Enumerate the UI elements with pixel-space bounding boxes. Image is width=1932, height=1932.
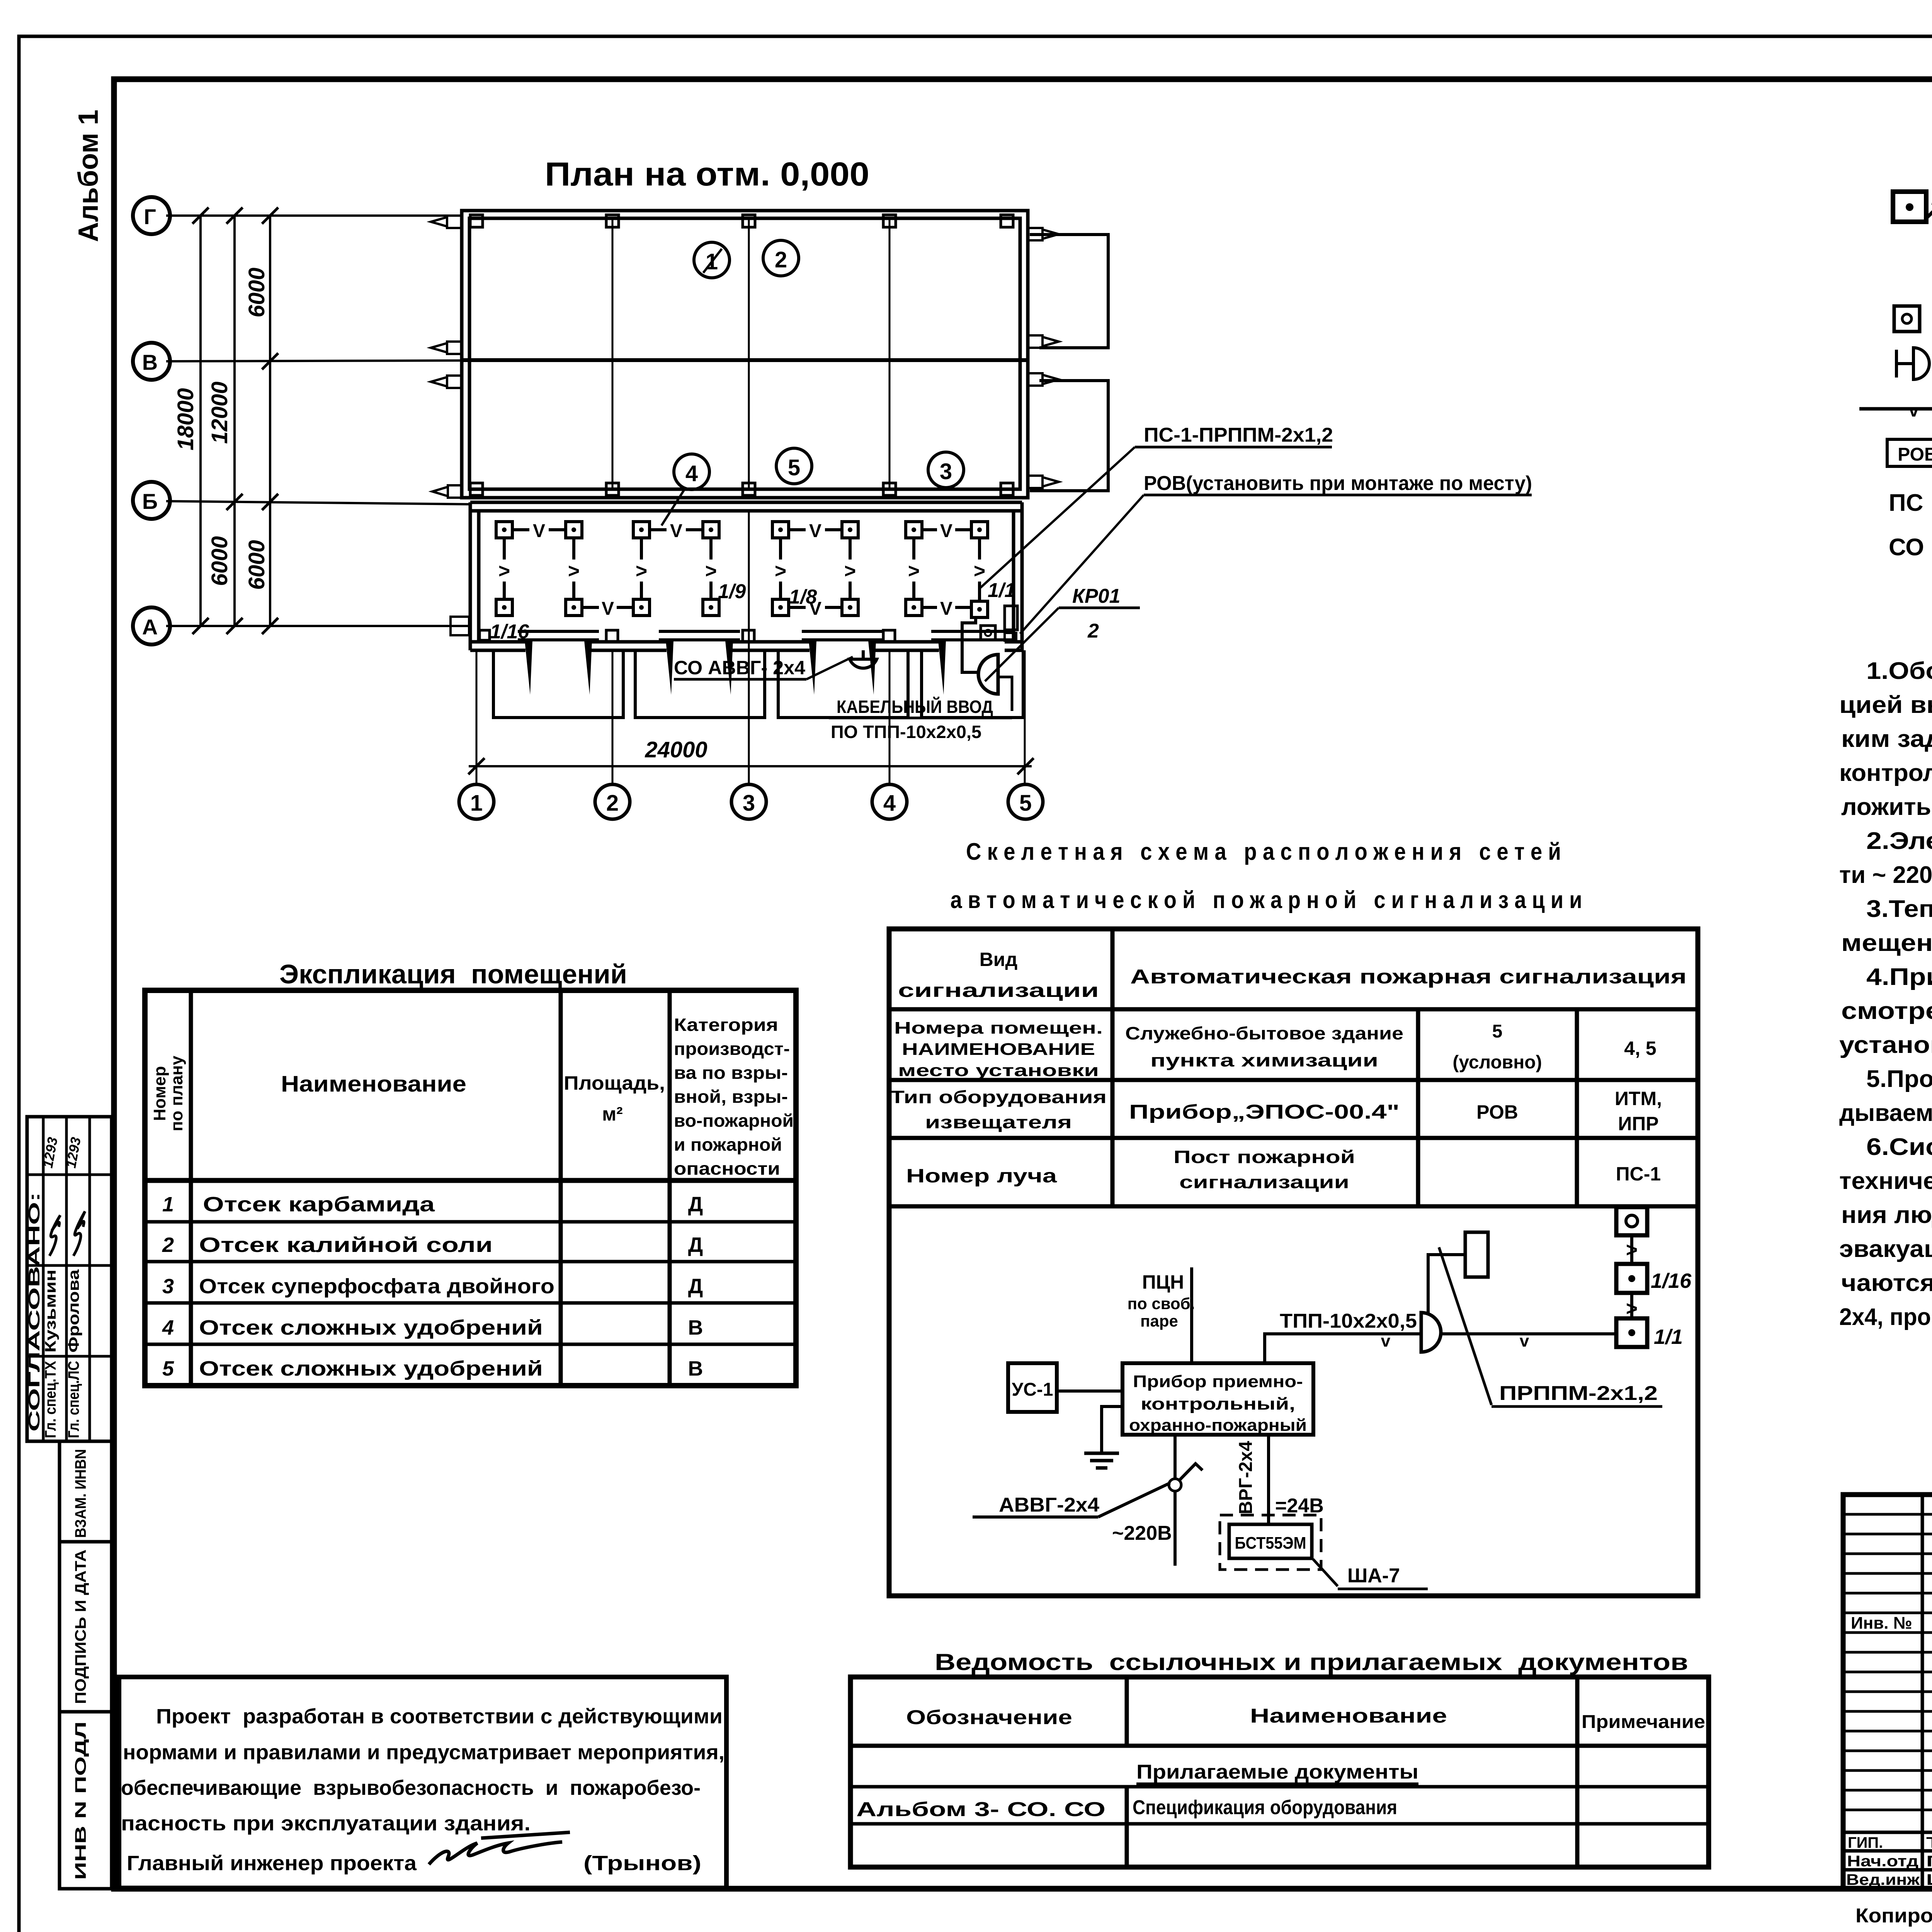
vedomost table xyxy=(850,1677,1709,1867)
svg-text:УС-1: УС-1 xyxy=(1012,1379,1053,1400)
right annex room 2 xyxy=(1030,381,1108,491)
wire bell to detector xyxy=(1441,1332,1616,1335)
skeletal table frame xyxy=(889,929,1698,1596)
row В wall through building xyxy=(462,358,1028,362)
svg-text:>: > xyxy=(1626,1239,1638,1261)
svg-text:>: > xyxy=(568,560,580,582)
annex bottom wall segments xyxy=(470,642,1022,650)
svg-text:2: 2 xyxy=(775,247,787,272)
door lintels over bay openings xyxy=(518,631,1012,640)
svg-text:>: > xyxy=(498,560,510,582)
svg-text:В: В xyxy=(142,350,158,374)
grid line 2 xyxy=(612,218,614,489)
column circle 2 xyxy=(595,784,630,819)
wire УС-1 to device xyxy=(1057,1389,1122,1393)
column circle 3 xyxy=(731,784,766,819)
detector 1/16 in schematic xyxy=(1616,1264,1647,1293)
svg-text:ПС-1: ПС-1 xyxy=(1616,1163,1661,1185)
svg-text:пункта химизации: пункта химизации xyxy=(1150,1050,1378,1070)
svg-text:ПС-1-ПРППМ-2х1,2: ПС-1-ПРППМ-2х1,2 xyxy=(1144,424,1333,446)
svg-text:ВЗАМ. ИНВN: ВЗАМ. ИНВN xyxy=(72,1449,89,1538)
left columns xyxy=(1921,1495,1924,1889)
svg-text:и пожарной: и пожарной xyxy=(674,1134,782,1155)
svg-text:6.Система оповещения о пожаре-: 6.Система оповещения о пожаре- составная… xyxy=(1866,1134,1932,1160)
explication table frame xyxy=(145,990,796,1386)
svg-text:2.Электропитание прибора произ: 2.Электропитание прибора произвести по I… xyxy=(1866,828,1932,854)
svg-text:>: > xyxy=(1626,1298,1638,1320)
svg-text:Д: Д xyxy=(688,1275,703,1298)
svg-text:6000: 6000 xyxy=(207,536,232,586)
svg-text:ПЦН: ПЦН xyxy=(1142,1271,1184,1293)
svg-text:опасности: опасности xyxy=(674,1158,780,1179)
svg-text:18000: 18000 xyxy=(173,388,198,450)
svg-text:РОВ(установить при монтаже по: РОВ(установить при монтаже по месту) xyxy=(1144,472,1532,495)
symbol auto detector xyxy=(1893,192,1926,222)
column circle 1 xyxy=(459,784,494,819)
svg-text:контрольный охранно-пожарный „: контрольный охранно-пожарный „ЭПОС-004."… xyxy=(1839,760,1932,786)
svg-text:5: 5 xyxy=(1019,791,1032,816)
grid row circle Б xyxy=(133,482,170,519)
svg-text:5: 5 xyxy=(1492,1021,1503,1042)
leader ПРППМ xyxy=(1439,1247,1492,1405)
svg-text:Пост пожарной: Пост пожарной xyxy=(1173,1147,1355,1167)
svg-text:Обозначение: Обозначение xyxy=(906,1706,1072,1729)
category letters xyxy=(688,1193,703,1380)
row numbers xyxy=(162,1193,174,1380)
svg-text:4: 4 xyxy=(162,1316,174,1339)
svg-text:v: v xyxy=(1520,1332,1529,1350)
svg-text:а в т о м а т и ч е с к о й: а в т о м а т и ч е с к о й п о ж а р н … xyxy=(951,887,1582,913)
row line Г xyxy=(166,214,462,217)
upper building block outer wall xyxy=(462,211,1028,498)
annex top wall xyxy=(470,501,1022,504)
chain wires with chevrons xyxy=(1630,1235,1633,1264)
svg-text:Номер луча: Номер луча xyxy=(906,1165,1058,1187)
svg-text:1/1: 1/1 xyxy=(988,579,1015,602)
svg-text:сигнализации: сигнализации xyxy=(1179,1172,1349,1192)
bell at right wall xyxy=(978,655,998,694)
manual detector in schematic xyxy=(1616,1207,1647,1235)
svg-text:4.При срабатывании любого изве: 4.При срабатывании любого извещателя при… xyxy=(1866,964,1932,990)
svg-text:КР01: КР01 xyxy=(1072,585,1121,607)
svg-text:5: 5 xyxy=(788,455,800,480)
svg-text:Д: Д xyxy=(688,1233,703,1257)
svg-text:паре: паре xyxy=(1140,1312,1178,1330)
left table rows xyxy=(1843,1514,1932,1810)
title block outer xyxy=(1843,1495,1932,1889)
room circle 1 xyxy=(694,242,730,278)
chief engineer signature xyxy=(429,1842,562,1864)
svg-text:пасность при эксплуатации здан: пасность при эксплуатации здания. xyxy=(121,1812,531,1835)
svg-text:Ведомость ссылочных и прилага: Ведомость ссылочных и прилагаемых докуме… xyxy=(935,1649,1688,1675)
symbol signal line xyxy=(1859,407,1932,411)
battery block БСТ55ЭМ xyxy=(1229,1524,1312,1558)
header col4 xyxy=(674,1015,794,1179)
svg-text:ва по взры-: ва по взры- xyxy=(674,1063,788,1083)
svg-text:ти ~ 220В и от батареи = 24 В.: ти ~ 220В и от батареи = 24 В. Прибор за… xyxy=(1839,862,1932,888)
svg-text:Автоматическая пожарная сигнал: Автоматическая пожарная сигнализация xyxy=(1130,966,1687,988)
svg-text:НАИМЕНОВАНИЕ: НАИМЕНОВАНИЕ xyxy=(902,1040,1095,1059)
svg-text:ким заданием. Сигналы о пожаре: ким заданием. Сигналы о пожаре подаются … xyxy=(1841,726,1932,752)
column circle 4 xyxy=(872,784,907,819)
cable entry wire xyxy=(999,677,1012,711)
bell in schematic xyxy=(1421,1313,1441,1352)
svg-text:V: V xyxy=(533,521,545,541)
row line Б xyxy=(166,501,470,504)
svg-text:Вид: Вид xyxy=(980,949,1018,970)
svg-text:Цыганова: Цыганова xyxy=(1926,1871,1932,1888)
room circle 3 xyxy=(928,452,964,488)
svg-text:ложить в служебно-бытовом здан: ложить в служебно-бытовом здании пункта … xyxy=(1841,794,1932,820)
svg-text:ГИП.: ГИП. xyxy=(1848,1834,1883,1851)
row line А xyxy=(166,625,468,627)
svg-text:2: 2 xyxy=(162,1233,174,1257)
wire to PTsN xyxy=(1190,1267,1193,1363)
svg-text:во-пожарной: во-пожарной xyxy=(674,1111,794,1131)
svg-text:Номера помещен.: Номера помещен. xyxy=(894,1019,1103,1037)
svg-text:Отсек карбамида: Отсек карбамида xyxy=(203,1193,435,1216)
svg-text:извещателя: извещателя xyxy=(925,1112,1072,1132)
grid line 1 xyxy=(476,650,478,784)
ВРГ wire xyxy=(1267,1435,1270,1524)
svg-text:2: 2 xyxy=(606,791,619,816)
svg-text:~220В: ~220В xyxy=(1112,1522,1172,1544)
svg-text:дываемым по стене и потолку от: дываемым по стене и потолку открыто. xyxy=(1839,1100,1932,1126)
detector 1/1 in schematic xyxy=(1616,1318,1647,1347)
svg-text:Отсек суперфосфата двойного: Отсек суперфосфата двойного xyxy=(199,1275,554,1298)
svg-text:КАБЕЛЬНЫЙ ВВОД: КАБЕЛЬНЫЙ ВВОД xyxy=(837,697,993,717)
svg-text:Наименование: Наименование xyxy=(1250,1705,1447,1727)
svg-text:Гл. спец.ТХ: Гл. спец.ТХ xyxy=(42,1361,59,1438)
svg-text:1/16: 1/16 xyxy=(490,621,529,643)
svg-text:В: В xyxy=(688,1316,703,1339)
svg-text:ПРППМ-2х1,2: ПРППМ-2х1,2 xyxy=(1499,1382,1658,1405)
svg-text:>: > xyxy=(775,560,786,582)
svg-text:v: v xyxy=(1909,400,1919,420)
right pilaster row Г xyxy=(1028,228,1059,240)
svg-text:место установки: место установки xyxy=(898,1061,1099,1080)
grid row circle А xyxy=(133,607,170,645)
loop wires top row with V marks xyxy=(512,528,971,531)
row names xyxy=(199,1193,554,1380)
svg-text:1: 1 xyxy=(162,1193,174,1216)
svg-text:технических средств противопож: технических средств противопожарной защи… xyxy=(1839,1168,1932,1194)
svg-text:С к е л е т н а я с х е м а: С к е л е т н а я с х е м а р а с п о л … xyxy=(966,838,1561,865)
annex left wall xyxy=(469,502,472,650)
svg-text:3: 3 xyxy=(162,1275,174,1298)
svg-text:Категория: Категория xyxy=(674,1015,778,1035)
svg-text:Служебно-бытовое здание: Служебно-бытовое здание xyxy=(1125,1023,1403,1043)
svg-text:ПС: ПС xyxy=(1889,490,1923,516)
svg-text:Кузьмин: Кузьмин xyxy=(42,1270,59,1353)
porch outlines below bays xyxy=(493,650,623,718)
wire from bell to relay rect xyxy=(1428,1255,1465,1313)
svg-text:А: А xyxy=(142,615,158,639)
svg-text:1/8: 1/8 xyxy=(789,586,817,608)
left pilaster row Б xyxy=(432,485,462,498)
svg-text:(Трынов): (Трынов) xyxy=(583,1852,701,1875)
svg-text:Инв. №: Инв. № xyxy=(1851,1614,1912,1633)
svg-text:Экспликация помещений: Экспликация помещений xyxy=(279,959,627,989)
svg-text:ния людей о пожаре установить: ния людей о пожаре установить звонки МЗ-… xyxy=(1841,1202,1932,1228)
svg-text:5: 5 xyxy=(162,1357,174,1380)
left pilaster row Г xyxy=(431,216,462,228)
svg-text:Потапов: Потапов xyxy=(1926,1853,1932,1870)
svg-text:Г: Г xyxy=(144,204,156,229)
svg-text:Вед.инж: Вед.инж xyxy=(1846,1871,1920,1888)
svg-text:1.Оборудование объекта автомат: 1.Оборудование объекта автоматической по… xyxy=(1866,658,1932,684)
leader from room 4 xyxy=(662,488,685,526)
symbol POB relay xyxy=(1887,439,1932,466)
control device block xyxy=(1122,1363,1313,1435)
svg-text:2х4, прокладываемым отдельно.: 2х4, прокладываемым отдельно. xyxy=(1839,1304,1932,1330)
svg-text:Прилагаемые документы: Прилагаемые документы xyxy=(1136,1761,1418,1783)
symbol electric bell xyxy=(1895,350,1898,378)
svg-text:Альбом 3- СО. СО: Альбом 3- СО. СО xyxy=(856,1798,1105,1821)
svg-text:6000: 6000 xyxy=(244,267,269,317)
annex right wall xyxy=(1020,502,1024,650)
svg-text:Альбом 1: Альбом 1 xyxy=(73,110,104,242)
svg-text:мещения светильников, в конце: мещения светильников, в конце луча-ручно… xyxy=(1841,930,1932,956)
manual call point square xyxy=(981,626,995,640)
svg-text:ПО ТПП-10х2х0,5: ПО ТПП-10х2х0,5 xyxy=(831,722,981,742)
svg-text:Главный инженер проекта: Главный инженер проекта xyxy=(127,1852,417,1875)
vertical loop wires with chevrons xyxy=(504,538,980,601)
svg-text:Отсек сложных удобрений: Отсек сложных удобрений xyxy=(199,1316,543,1339)
svg-text:v: v xyxy=(1381,1332,1391,1350)
svg-text:Отсек сложных удобрений: Отсек сложных удобрений xyxy=(199,1357,543,1380)
svg-text:12000: 12000 xyxy=(207,381,232,444)
svg-text:чаются дежурным персоналом. Се: чаются дежурным персоналом. Сеть выполни… xyxy=(1841,1270,1932,1296)
svg-text:Площадь,: Площадь, xyxy=(564,1072,665,1094)
svg-text:>: > xyxy=(844,560,856,582)
svg-text:обеспечивающие взрывобезопасн: обеспечивающие взрывобезопасность и пожа… xyxy=(121,1776,701,1799)
ground symbol xyxy=(1102,1406,1122,1453)
right annex room 1 xyxy=(1030,235,1108,348)
wire from detector to bell xyxy=(962,618,978,672)
svg-text:вной, взры-: вной, взры- xyxy=(674,1087,788,1107)
svg-text:V: V xyxy=(602,599,614,619)
svg-text:ША-7: ША-7 xyxy=(1347,1565,1400,1587)
leader РОВ xyxy=(1020,495,1144,634)
svg-text:эвакуации людей. При поступлен: эвакуации людей. При поступлении сигнала… xyxy=(1839,1236,1932,1262)
svg-text:РОВ: РОВ xyxy=(1476,1101,1518,1123)
svg-text:5.Проводку к извещателям выпол: 5.Проводку к извещателям выполнить кабел… xyxy=(1866,1066,1932,1092)
left pilaster row В upper xyxy=(431,342,462,354)
svg-text:V: V xyxy=(940,599,952,619)
svg-text:2: 2 xyxy=(1087,620,1099,642)
svg-text:Д: Д xyxy=(688,1193,703,1216)
svg-text:смотрено отключение цепей пита: смотрено отключение цепей питания вентси… xyxy=(1841,998,1932,1024)
svg-text:ПОДПИСЬ И ДАТА: ПОДПИСЬ И ДАТА xyxy=(72,1549,89,1704)
svg-text:Отсек калийной соли: Отсек калийной соли xyxy=(199,1233,493,1257)
svg-text:контрольный,: контрольный, xyxy=(1141,1395,1295,1413)
project note box xyxy=(119,1677,726,1888)
svg-text:Трынов: Трынов xyxy=(1926,1834,1932,1851)
column circle 5 xyxy=(1008,784,1043,819)
door splay triangles xyxy=(525,641,946,695)
svg-text:В: В xyxy=(688,1357,703,1380)
right pilaster row В upper xyxy=(1028,335,1059,348)
column squares on bottom wall xyxy=(606,630,618,642)
svg-text:нормами и правилами и предусма: нормами и правилами и предусматривает ме… xyxy=(123,1741,724,1764)
column squares top wall xyxy=(470,215,483,227)
svg-text:по своб.: по своб. xyxy=(1128,1294,1195,1313)
svg-text:ВРГ-2х4: ВРГ-2х4 xyxy=(1236,1441,1256,1514)
right pilaster row Б xyxy=(1028,476,1059,488)
svg-text:ТПП-10х2х0,5: ТПП-10х2х0,5 xyxy=(1280,1310,1417,1332)
svg-text:V: V xyxy=(940,521,952,541)
relay rectangle xyxy=(1465,1232,1488,1277)
svg-text:сигнализации: сигнализации xyxy=(898,980,1099,1001)
svg-text:СО: СО xyxy=(1889,534,1924,561)
svg-text:м²: м² xyxy=(602,1103,623,1125)
svg-text:1/16: 1/16 xyxy=(1651,1269,1692,1293)
svg-text:по плану: по плану xyxy=(167,1056,186,1131)
svg-text:Прибор„ЭПОС-00.4": Прибор„ЭПОС-00.4" xyxy=(1129,1101,1400,1123)
svg-text:3.Тепловые пожарные извещатели: 3.Тепловые пожарные извещатели ИТМ устан… xyxy=(1866,896,1932,922)
svg-text:Фролова: Фролова xyxy=(65,1269,82,1353)
room circle 2 xyxy=(763,240,799,276)
svg-text:Б: Б xyxy=(142,489,158,514)
svg-text:3: 3 xyxy=(743,791,755,816)
upper building block inner wall xyxy=(469,218,1020,489)
svg-text:РОВ: РОВ xyxy=(1898,444,1932,465)
leader ПС-1 xyxy=(979,447,1135,589)
svg-text:СОГЛАСОВАНО:: СОГЛАСОВАНО: xyxy=(26,1192,43,1432)
svg-text:Наименование: Наименование xyxy=(281,1071,466,1097)
svg-text:1/1: 1/1 xyxy=(1654,1325,1683,1349)
vertical dimension line 18000 xyxy=(199,216,202,626)
TPP wire xyxy=(1265,1334,1420,1363)
lower margin stamps xyxy=(60,1441,112,1889)
svg-text:Проект разработан в соответст: Проект разработан в соответствии с дейст… xyxy=(156,1705,723,1728)
svg-text:>: > xyxy=(908,560,920,582)
svg-text:1/9: 1/9 xyxy=(718,580,746,603)
bell symbol on plan at bay 3 xyxy=(850,659,877,668)
column squares bottom wall of upper block xyxy=(470,483,483,495)
approval stamp table xyxy=(27,1117,112,1441)
small device rect xyxy=(1005,633,1016,641)
svg-text:4, 5: 4, 5 xyxy=(1624,1037,1656,1059)
loop wires bottom row with V marks xyxy=(582,606,971,609)
vertical dimension line 12000 xyxy=(233,216,236,626)
svg-text:6000: 6000 xyxy=(244,540,269,590)
svg-text:4: 4 xyxy=(685,461,698,486)
room circle 4 xyxy=(674,454,709,490)
220V wire with switch xyxy=(1173,1435,1177,1479)
svg-text:24000: 24000 xyxy=(645,737,707,762)
grid row circle В xyxy=(133,343,170,380)
svg-text:V: V xyxy=(809,521,821,541)
svg-text:ИНВ N ПОДЛ: ИНВ N ПОДЛ xyxy=(72,1721,89,1880)
svg-text:>: > xyxy=(705,560,717,582)
svg-text:Прибор приемно-: Прибор приемно- xyxy=(1133,1372,1303,1391)
svg-text:цией выполнено в соответствии: цией выполнено в соответствии с ВСН-25-0… xyxy=(1839,692,1932,718)
signing rows xyxy=(1846,1834,1932,1888)
svg-text:1: 1 xyxy=(470,791,483,816)
svg-text:ИПР: ИПР xyxy=(1618,1113,1658,1134)
row line В xyxy=(166,361,461,361)
vertical dimension line 6000 chain xyxy=(269,216,271,626)
svg-text:СО АВВГ- 2х4: СО АВВГ- 2х4 xyxy=(674,657,805,679)
svg-text:установить в ящике при монтаже: установить в ящике при монтаже по месту … xyxy=(1839,1032,1932,1058)
symbol manual detector xyxy=(1894,306,1920,332)
device rectangle at right xyxy=(1005,606,1017,630)
right pilaster row В lower xyxy=(1028,373,1059,386)
block УС-1 xyxy=(1008,1363,1057,1412)
svg-text:Номер: Номер xyxy=(150,1066,169,1121)
svg-text:АВВГ-2х4: АВВГ-2х4 xyxy=(999,1494,1099,1516)
svg-text:(условно): (условно) xyxy=(1452,1052,1542,1073)
svg-text:=24В: =24В xyxy=(1275,1495,1324,1517)
ША-7 label xyxy=(1313,1559,1338,1586)
grid line 5 xyxy=(1024,650,1026,784)
svg-text:Примечание: Примечание xyxy=(1582,1712,1705,1732)
svg-text:3: 3 xyxy=(940,459,952,484)
svg-text:БСТ55ЭМ: БСТ55ЭМ xyxy=(1235,1534,1306,1553)
svg-text:охранно-пожарный: охранно-пожарный xyxy=(1129,1416,1307,1435)
detector squares bottom row xyxy=(496,599,988,617)
svg-text:производст-: производст- xyxy=(674,1039,790,1059)
svg-text:V: V xyxy=(670,521,682,541)
svg-text:Нач.отд: Нач.отд xyxy=(1847,1853,1918,1870)
svg-text:ИТМ,: ИТМ, xyxy=(1615,1088,1662,1109)
left pilaster row В lower xyxy=(431,376,462,388)
svg-text:Гл. спец.ЛС: Гл. спец.ЛС xyxy=(65,1361,82,1438)
room circle 5 xyxy=(776,448,812,484)
svg-text:4: 4 xyxy=(883,791,896,816)
horizontal dimension line 24000 xyxy=(469,765,1032,767)
svg-text:Копировал: Копировал xyxy=(1855,1905,1932,1927)
grid row circle Г xyxy=(133,197,170,234)
detector squares top row xyxy=(496,522,988,538)
svg-text:План на отм. 0,000: План на отм. 0,000 xyxy=(545,156,869,193)
svg-text:Тип оборудования: Тип оборудования xyxy=(890,1087,1107,1107)
grid line 4 xyxy=(889,218,891,489)
svg-text:>: > xyxy=(636,560,647,582)
grid line 3 xyxy=(748,218,750,489)
signature scribbles xyxy=(49,1215,60,1256)
svg-text:Спецификация оборудования: Спецификация оборудования xyxy=(1133,1796,1397,1819)
svg-text:>: > xyxy=(974,560,985,582)
left pilaster row А annex xyxy=(451,617,469,635)
